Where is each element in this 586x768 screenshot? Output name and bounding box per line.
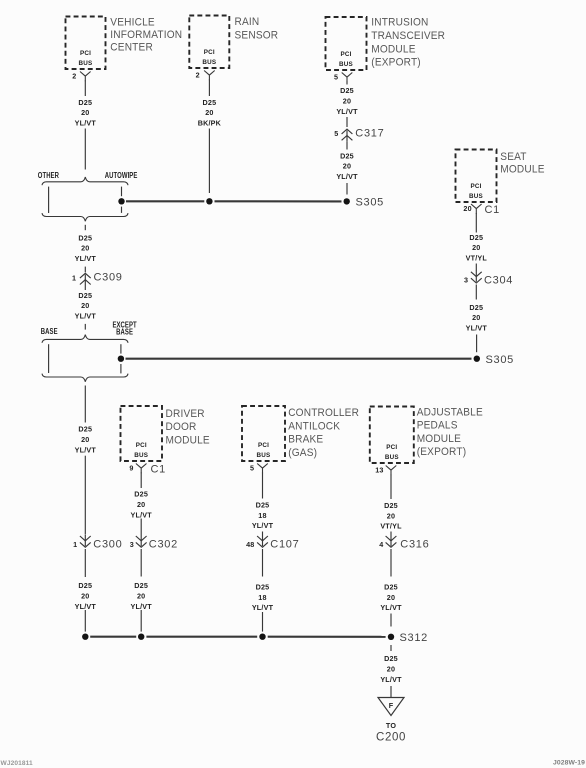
svg-text:5: 5 <box>334 129 338 138</box>
svg-text:TRANSCEIVER: TRANSCEIVER <box>371 30 445 42</box>
svg-text:20: 20 <box>472 313 480 322</box>
module box: Adjustable Pedals Module U7 <box>370 407 414 464</box>
svg-text:BASE: BASE <box>41 326 58 336</box>
svg-text:20: 20 <box>472 243 480 252</box>
wire <box>84 549 86 577</box>
svg-text:20: 20 <box>387 664 395 673</box>
svg-text:MODULE: MODULE <box>500 163 544 175</box>
svg-text:20: 20 <box>463 204 471 213</box>
connector pin 2 (Rain Sensor) <box>196 71 215 81</box>
split brace bottom (BASE/EXCEPT BASE) <box>42 374 128 382</box>
in-line connector C304 pin 3 <box>464 270 513 286</box>
junction dot (Rain Sensor branch) <box>206 198 212 204</box>
wire <box>390 686 392 697</box>
wire <box>390 532 392 535</box>
wire <box>476 335 478 353</box>
module box: Driver Door Module U5 <box>121 406 163 461</box>
wire <box>262 612 264 632</box>
connector pin 13 (Adjustable Pedals Module) <box>375 466 396 476</box>
connector pin 2 (Vehicle Information Center) <box>72 72 90 82</box>
module box: Vehicle Information Center U1 <box>66 17 106 70</box>
in-line connector C309 pin 1 <box>72 272 123 286</box>
svg-text:YL/VT: YL/VT <box>75 602 97 611</box>
wire <box>346 142 348 150</box>
svg-text:5: 5 <box>250 464 254 473</box>
svg-text:YL/VT: YL/VT <box>131 510 153 519</box>
label: ADJUSTABLE PEDALS MODULE (EXPORT) <box>417 406 483 458</box>
module box: Controller Antilock Brake U6 <box>242 406 285 461</box>
svg-text:D25: D25 <box>469 233 483 242</box>
svg-text:DRIVER: DRIVER <box>166 408 205 420</box>
svg-text:MODULE: MODULE <box>371 43 415 55</box>
wire label D25 18 YL/VT <box>252 500 274 530</box>
svg-text:TO: TO <box>386 721 396 730</box>
svg-text:MODULE: MODULE <box>417 433 461 445</box>
wire OTHER branch <box>48 187 50 213</box>
svg-text:20: 20 <box>343 96 351 105</box>
wire <box>390 474 392 499</box>
wire label D25 18 YL/VT <box>252 582 274 612</box>
svg-text:C302: C302 <box>149 539 178 551</box>
wire <box>84 456 86 535</box>
svg-text:20: 20 <box>387 593 395 602</box>
wire <box>390 614 392 627</box>
svg-text:(EXPORT): (EXPORT) <box>371 56 421 68</box>
svg-text:VEHICLE: VEHICLE <box>110 16 155 28</box>
wire label D25 20 YL/VT <box>75 581 97 611</box>
svg-text:20: 20 <box>81 108 89 117</box>
svg-text:YL/VT: YL/VT <box>252 603 274 612</box>
label: VEHICLE INFORMATION CENTER <box>110 16 182 54</box>
wire BASE branch <box>48 344 50 373</box>
svg-text:S312: S312 <box>400 632 429 644</box>
svg-text:YL/VT: YL/VT <box>75 254 97 263</box>
wire <box>140 610 142 632</box>
svg-text:9: 9 <box>129 464 133 473</box>
svg-text:YL/VT: YL/VT <box>75 119 97 128</box>
svg-text:20: 20 <box>81 591 89 600</box>
wire <box>346 117 348 127</box>
svg-text:PEDALS: PEDALS <box>417 419 458 431</box>
svg-text:OTHER: OTHER <box>38 170 60 180</box>
wire <box>140 549 142 577</box>
svg-text:C1: C1 <box>151 464 166 476</box>
svg-text:WJ201811: WJ201811 <box>1 760 34 767</box>
junction dot AUTOWIPE branch <box>118 198 124 204</box>
svg-text:20: 20 <box>137 500 145 509</box>
label: AUTOWIPE branch <box>105 170 138 180</box>
label: splice S305 (second) <box>486 354 515 366</box>
svg-text:20: 20 <box>343 162 351 171</box>
label: TO C200 <box>376 721 406 744</box>
off-page connector F (to C200) <box>378 698 404 716</box>
svg-text:C107: C107 <box>270 539 299 551</box>
wire <box>262 549 264 577</box>
svg-text:D25: D25 <box>134 490 148 499</box>
wire <box>84 324 86 330</box>
svg-text:BRAKE: BRAKE <box>288 433 323 445</box>
connector pin 5 (Intrusion Transceiver Module) <box>334 73 352 83</box>
in-line connector C300 pin 1 <box>73 535 122 551</box>
wire label D25 20 YL/VT <box>75 425 97 455</box>
svg-text:2: 2 <box>72 72 76 81</box>
svg-text:SENSOR: SENSOR <box>235 29 279 41</box>
wire <box>262 472 264 498</box>
wire <box>84 286 86 290</box>
svg-text:20: 20 <box>387 511 395 520</box>
svg-text:D25: D25 <box>78 98 92 107</box>
in-line connector C107 pin 48 <box>246 535 299 551</box>
svg-text:YL/VT: YL/VT <box>252 521 274 530</box>
svg-text:J028W-19: J028W-19 <box>553 759 585 766</box>
wire <box>140 519 142 535</box>
svg-text:INTRUSION: INTRUSION <box>371 16 428 28</box>
svg-text:D25: D25 <box>78 291 92 300</box>
wire <box>84 225 86 230</box>
wire <box>84 80 86 96</box>
wire label D25 20 YL/VT <box>336 151 358 181</box>
svg-text:5: 5 <box>334 73 338 82</box>
svg-text:D25: D25 <box>78 233 92 242</box>
wire label D25 20 YL/VT <box>75 98 97 128</box>
svg-text:PCI: PCI <box>340 51 351 58</box>
module box: Intrusion Transceiver Module U3 <box>326 17 367 70</box>
junction dot (Antilock Brake branch into bus) <box>259 634 265 640</box>
wire <box>475 264 477 271</box>
svg-text:DOOR: DOOR <box>166 421 197 433</box>
drawing number J028W-19 <box>553 759 585 766</box>
svg-text:D25: D25 <box>256 582 270 591</box>
svg-text:ADJUSTABLE: ADJUSTABLE <box>417 406 483 418</box>
svg-text:18: 18 <box>258 593 266 602</box>
svg-text:D25: D25 <box>256 500 270 509</box>
label: splice S312 <box>400 632 429 644</box>
wire label D25 20 YL/VT <box>75 291 97 321</box>
wire label D25 20 VT/YL <box>466 233 488 263</box>
wire <box>390 645 392 651</box>
svg-text:D25: D25 <box>340 151 354 160</box>
label: DRIVER DOOR MODULE <box>166 408 210 447</box>
sheet number WJ201811 <box>1 760 34 767</box>
wire label D25 20 YL/VT <box>131 490 153 520</box>
split brace bottom (OTHER/AUTOWIPE) <box>42 213 128 221</box>
svg-text:18: 18 <box>258 511 266 520</box>
wire <box>208 129 210 194</box>
svg-text:VT/YL: VT/YL <box>380 522 402 531</box>
in-line connector C317 pin 5 <box>334 127 384 141</box>
svg-text:AUTOWIPE: AUTOWIPE <box>105 170 138 180</box>
connector C1 pin 20 (Seat Module) <box>463 204 500 216</box>
wire label D25 20 YL/VT <box>380 654 402 684</box>
wire <box>208 79 210 96</box>
svg-text:C300: C300 <box>93 539 122 551</box>
svg-text:(GAS): (GAS) <box>288 446 317 458</box>
split brace top (OTHER/AUTOWIPE) <box>42 177 128 185</box>
wire <box>84 386 86 423</box>
svg-text:D25: D25 <box>384 501 398 510</box>
svg-text:20: 20 <box>81 435 89 444</box>
splice S305 junction dot (second) <box>474 356 480 362</box>
svg-text:PCI: PCI <box>386 444 397 451</box>
splice S312 junction dot <box>388 634 394 640</box>
svg-text:CENTER: CENTER <box>110 41 153 53</box>
svg-text:ANTILOCK: ANTILOCK <box>288 420 340 432</box>
wire <box>84 610 86 632</box>
svg-text:C200: C200 <box>376 731 406 743</box>
svg-text:2: 2 <box>196 71 200 80</box>
svg-text:PCI: PCI <box>470 183 481 190</box>
svg-text:S305: S305 <box>486 354 515 366</box>
wire <box>262 532 264 535</box>
connector pin 5 (Controller Antilock Brake) <box>250 464 268 474</box>
junction dot (left branch into bus) <box>82 634 88 640</box>
svg-text:3: 3 <box>130 540 134 549</box>
svg-text:BASE: BASE <box>116 327 133 337</box>
wire <box>475 285 477 300</box>
svg-text:YL/VT: YL/VT <box>336 107 358 116</box>
svg-text:(EXPORT): (EXPORT) <box>417 446 467 458</box>
svg-text:4: 4 <box>379 540 383 549</box>
module box: Seat Module U4 <box>456 150 497 203</box>
svg-text:YL/VT: YL/VT <box>466 324 488 333</box>
svg-text:SEAT: SEAT <box>500 151 527 163</box>
in-line connector C316 pin 4 <box>379 535 429 551</box>
svg-text:BUS: BUS <box>385 454 399 461</box>
svg-text:PCI: PCI <box>258 442 269 449</box>
split brace top (BASE/EXCEPT BASE) <box>42 335 128 343</box>
svg-text:BUS: BUS <box>257 452 271 459</box>
wire EXCEPT BASE branch <box>120 344 122 373</box>
svg-text:3: 3 <box>464 276 468 285</box>
wire <box>346 81 348 84</box>
label: RAIN SENSOR <box>235 16 279 42</box>
svg-text:1: 1 <box>72 273 76 282</box>
connector C1 pin 9 (Driver Door Module) <box>129 464 166 476</box>
PCI bus wire (horizontal) to S312 <box>90 636 385 638</box>
svg-text:C1: C1 <box>485 204 500 216</box>
svg-text:D25: D25 <box>469 303 483 312</box>
PCI bus wire (horizontal) from AUTOWIPE branch to S305 <box>126 200 342 202</box>
svg-text:RAIN: RAIN <box>235 16 260 28</box>
svg-text:PCI: PCI <box>80 50 91 57</box>
label: SEAT MODULE <box>500 151 544 176</box>
label: CONTROLLER ANTILOCK BRAKE (GAS) <box>288 407 359 459</box>
wire label D25 20 YL/VT <box>466 303 488 333</box>
junction dot (Driver Door branch into bus) <box>138 634 144 640</box>
label: INTRUSION TRANSCEIVER MODULE (EXPORT) <box>371 16 445 69</box>
svg-text:CONTROLLER: CONTROLLER <box>288 407 359 419</box>
svg-text:C304: C304 <box>484 274 513 286</box>
svg-text:BUS: BUS <box>339 61 353 68</box>
svg-text:20: 20 <box>205 108 213 117</box>
svg-text:D25: D25 <box>78 425 92 434</box>
wire label D25 20 YL/VT <box>336 86 358 116</box>
junction dot EXCEPT BASE branch <box>118 356 124 362</box>
wire <box>84 267 86 273</box>
label: splice S305 <box>356 197 385 209</box>
svg-text:13: 13 <box>375 466 383 475</box>
wire AUTOWIPE branch <box>121 187 123 213</box>
svg-text:1: 1 <box>73 540 77 549</box>
svg-text:YL/VT: YL/VT <box>336 172 358 181</box>
svg-text:BUS: BUS <box>134 452 148 459</box>
svg-text:C316: C316 <box>400 539 429 551</box>
svg-text:BUS: BUS <box>202 59 216 66</box>
wire label D25 20 BK/PK <box>198 98 222 128</box>
wire label D25 20 YL/VT <box>75 233 97 263</box>
PCI bus wire (horizontal) from EXCEPT BASE branch to S305 <box>126 358 472 360</box>
splice S305 junction dot <box>344 198 350 204</box>
svg-text:YL/VT: YL/VT <box>380 603 402 612</box>
svg-text:BUS: BUS <box>79 60 93 67</box>
svg-text:D25: D25 <box>384 654 398 663</box>
svg-text:20: 20 <box>137 591 145 600</box>
module box: Rain Sensor U2 <box>189 16 229 69</box>
wire label D25 20 YL/VT <box>131 581 153 611</box>
svg-text:F: F <box>389 701 394 710</box>
svg-text:S305: S305 <box>356 197 385 209</box>
wire <box>475 213 477 233</box>
label: OTHER branch <box>38 170 60 180</box>
wire label D25 20 YL/VT <box>380 582 402 612</box>
svg-text:20: 20 <box>81 244 89 253</box>
svg-text:D25: D25 <box>203 98 217 107</box>
svg-text:20: 20 <box>81 301 89 310</box>
svg-text:C317: C317 <box>355 127 384 139</box>
svg-text:YL/VT: YL/VT <box>380 675 402 684</box>
wire label D25 20 VT/YL <box>380 501 402 531</box>
svg-text:VT/YL: VT/YL <box>466 254 488 263</box>
svg-text:C309: C309 <box>94 272 123 284</box>
wire <box>140 472 142 488</box>
label: EXCEPT BASE branch <box>112 319 137 337</box>
svg-text:MODULE: MODULE <box>166 434 210 446</box>
svg-text:YL/VT: YL/VT <box>75 312 97 321</box>
svg-text:48: 48 <box>246 540 254 549</box>
svg-text:D25: D25 <box>340 86 354 95</box>
svg-text:INFORMATION: INFORMATION <box>110 28 182 40</box>
wire <box>390 549 392 577</box>
svg-text:BK/PK: BK/PK <box>198 119 222 128</box>
wire <box>346 183 348 195</box>
svg-text:PCI: PCI <box>204 49 215 56</box>
svg-text:D25: D25 <box>134 581 148 590</box>
svg-text:YL/VT: YL/VT <box>75 445 97 454</box>
svg-text:PCI: PCI <box>136 442 147 449</box>
wire <box>84 129 86 170</box>
svg-text:D25: D25 <box>384 582 398 591</box>
svg-text:YL/VT: YL/VT <box>131 602 153 611</box>
svg-text:D25: D25 <box>78 581 92 590</box>
svg-text:BUS: BUS <box>469 193 483 200</box>
label: BASE branch <box>41 326 58 336</box>
in-line connector C302 pin 3 <box>130 535 178 551</box>
